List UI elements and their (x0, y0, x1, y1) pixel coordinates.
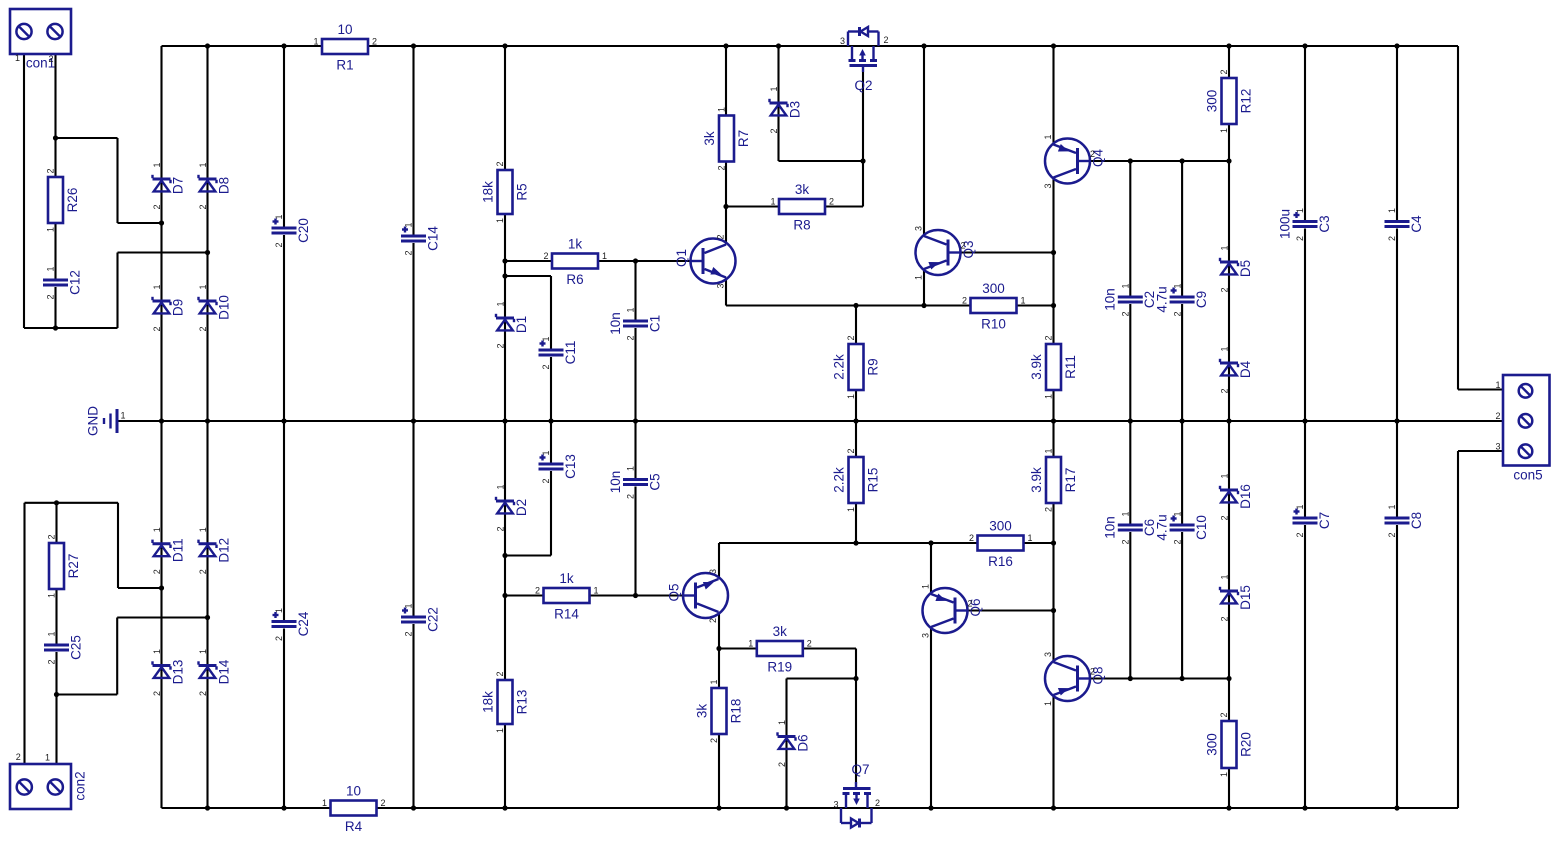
wire D3 to gate (779, 160, 864, 162)
svg-text:2: 2 (274, 242, 284, 247)
junction V- C24 (281, 805, 286, 810)
diode D15 (1220, 574, 1253, 621)
diode D16 (1220, 473, 1253, 520)
svg-text:D6: D6 (795, 734, 810, 751)
svg-text:10n: 10n (608, 312, 623, 335)
svg-text:1: 1 (45, 753, 50, 763)
svg-text:C22: C22 (425, 607, 440, 632)
junction GND C2 (1128, 418, 1133, 423)
diode D5 (1220, 245, 1253, 292)
svg-text:3.9k: 3.9k (1029, 354, 1044, 380)
junction con1 R26 (53, 135, 58, 140)
mosfet Q2 (840, 27, 889, 93)
svg-text:Q5: Q5 (666, 583, 681, 601)
junction GND C14 (411, 418, 416, 423)
svg-text:2: 2 (152, 204, 162, 209)
svg-text:D4: D4 (1238, 360, 1253, 378)
wire con5 pin1 lead (1458, 388, 1503, 390)
svg-text:1: 1 (748, 639, 753, 649)
svg-text:2: 2 (543, 251, 548, 261)
svg-text:C8: C8 (1409, 512, 1424, 529)
svg-text:2: 2 (1044, 335, 1054, 340)
svg-text:1k: 1k (559, 571, 574, 586)
resistor R17 (1029, 448, 1078, 512)
svg-text:2: 2 (404, 631, 414, 636)
svg-text:2: 2 (46, 294, 56, 299)
wire to D8 branch h (118, 251, 208, 253)
junction base C9 (1180, 158, 1185, 163)
svg-text:GND: GND (85, 406, 100, 436)
wire con1 pin1 down (23, 54, 25, 328)
svg-text:10: 10 (346, 784, 361, 799)
capacitor C20 (272, 214, 311, 247)
junction V+ C3 (1302, 43, 1307, 48)
svg-text:1: 1 (274, 608, 284, 613)
junction V- C22 (411, 805, 416, 810)
wire V+ rail (368, 45, 1458, 47)
svg-text:2: 2 (1090, 667, 1095, 677)
svg-text:R19: R19 (767, 660, 792, 675)
junction GND C3 (1302, 418, 1307, 423)
junction V- R13 (502, 805, 507, 810)
svg-text:1: 1 (274, 214, 284, 219)
junction base C10 (1180, 676, 1185, 681)
junction V+ C20 (281, 43, 286, 48)
wire Q6 base to node (967, 609, 1054, 611)
resistor R8 (770, 182, 834, 233)
resistor R18 (694, 679, 743, 743)
wire Q8 base line (1090, 677, 1229, 679)
diode D14 (198, 649, 231, 696)
svg-text:2: 2 (807, 639, 812, 649)
junction V- D14 (205, 805, 210, 810)
svg-text:1: 1 (152, 162, 162, 167)
resistor R11 (1029, 335, 1078, 399)
svg-text:4.7u: 4.7u (1154, 286, 1169, 312)
svg-text:R7: R7 (736, 130, 751, 147)
svg-text:1: 1 (495, 728, 505, 733)
wire R27 to C25 (55, 588, 57, 644)
wire R7 to R8 (726, 205, 779, 207)
wire R15 top (855, 421, 857, 457)
capacitor C6 (1103, 511, 1158, 544)
wire R19 pin2 lead (803, 647, 857, 649)
svg-text:R20: R20 (1238, 732, 1253, 757)
wire C8 column bottom (1396, 525, 1398, 808)
svg-text:2: 2 (198, 326, 208, 331)
svg-text:1: 1 (1387, 504, 1397, 509)
svg-text:3.9k: 3.9k (1029, 467, 1044, 493)
wire C5 column top (634, 421, 636, 478)
junction V- C8 (1394, 805, 1399, 810)
svg-text:2: 2 (198, 569, 208, 574)
svg-text:3: 3 (914, 226, 924, 231)
capacitor C3 (1277, 208, 1332, 241)
wire node to D7 branch h2 (118, 222, 162, 224)
svg-text:C13: C13 (563, 454, 578, 479)
junction D2 C13 (502, 553, 507, 558)
capacitor C11 (539, 336, 578, 369)
wire R20 top (1228, 679, 1230, 722)
junction emitter Q3 (921, 303, 926, 308)
svg-text:1: 1 (495, 218, 505, 223)
wire R5 top (504, 46, 506, 170)
capacitor C22 (401, 603, 440, 636)
svg-text:2: 2 (46, 168, 56, 173)
wire R19 to gate node (855, 649, 857, 679)
junction GND C1 (633, 418, 638, 423)
mosfet Q7 (833, 762, 880, 828)
svg-text:2: 2 (495, 161, 505, 166)
wire to D11 branch v (117, 503, 119, 588)
svg-text:2: 2 (717, 165, 727, 170)
junction base R12 (1226, 158, 1231, 163)
svg-text:2: 2 (152, 326, 162, 331)
svg-text:2: 2 (198, 204, 208, 209)
junction emitter R15 (853, 540, 858, 545)
junction D8 D10 node (205, 250, 210, 255)
diode D10 (198, 284, 231, 331)
junction V- R18 (716, 805, 721, 810)
svg-text:2: 2 (1121, 311, 1131, 316)
wire Q6 collector down (930, 628, 932, 809)
svg-text:1: 1 (198, 284, 208, 289)
junction Q6 base node (1051, 608, 1056, 613)
svg-text:2: 2 (47, 534, 57, 539)
svg-text:Q7: Q7 (851, 762, 869, 777)
svg-text:R6: R6 (566, 272, 583, 287)
svg-text:C11: C11 (563, 341, 578, 365)
junction GND R11 (1051, 418, 1056, 423)
transistor Q5 (666, 569, 728, 623)
svg-text:3k: 3k (795, 182, 810, 197)
svg-text:1: 1 (914, 275, 924, 280)
wire C7 column bottom (1304, 525, 1306, 808)
wire C25 to con2 (55, 652, 57, 764)
junction GND C4 (1394, 418, 1399, 423)
capacitor C13 (539, 450, 578, 483)
wire R9 top (855, 306, 857, 345)
svg-text:2: 2 (626, 335, 636, 340)
svg-text:D2: D2 (514, 499, 529, 516)
svg-text:1: 1 (1027, 533, 1032, 543)
resistor R6 (543, 237, 607, 288)
wire R12 top (1228, 46, 1230, 78)
diode D13 (152, 649, 185, 696)
wire C6 column top (1129, 421, 1131, 524)
capacitor C2 (1103, 283, 1158, 316)
junction D1 C11 (502, 273, 507, 278)
wire Q5 collector down (718, 613, 720, 689)
svg-text:C1: C1 (647, 315, 662, 332)
svg-text:1: 1 (846, 394, 856, 399)
svg-text:R27: R27 (66, 554, 81, 579)
svg-text:2: 2 (47, 659, 57, 664)
wire C2 column top (1129, 161, 1131, 296)
svg-text:3: 3 (1495, 442, 1500, 452)
svg-text:300: 300 (982, 281, 1005, 296)
resistor R13 (480, 671, 529, 733)
wire C10 column top (1181, 421, 1183, 524)
wire GND rail (117, 420, 1503, 422)
svg-text:1: 1 (1121, 511, 1131, 516)
svg-text:2: 2 (777, 762, 787, 767)
svg-text:2: 2 (541, 364, 551, 369)
svg-text:2: 2 (846, 335, 856, 340)
resistor R1 (313, 22, 377, 73)
wire D2 column (504, 421, 506, 680)
wire Q2 gate column (862, 72, 864, 207)
svg-text:2: 2 (48, 54, 53, 64)
svg-text:1: 1 (846, 507, 856, 512)
svg-text:C4: C4 (1409, 215, 1424, 233)
wire R6 pin1 to Q1 base (598, 260, 691, 262)
svg-text:2: 2 (496, 526, 506, 531)
wire Q7 gate column (855, 679, 857, 785)
capacitor C1 (608, 307, 663, 340)
wire V+ to con5 (1457, 46, 1459, 390)
wire C5 column bottom (634, 487, 636, 596)
svg-text:D3: D3 (787, 101, 802, 118)
svg-text:1: 1 (198, 649, 208, 654)
svg-text:1: 1 (47, 631, 57, 636)
junction V- C7 (1302, 805, 1307, 810)
svg-text:2: 2 (496, 343, 506, 348)
wire C1 column bottom (634, 328, 636, 421)
svg-text:2: 2 (404, 250, 414, 255)
wire R15 bottom (855, 503, 857, 543)
diode D1 (496, 301, 529, 348)
svg-text:Q2: Q2 (854, 78, 872, 93)
wire R6 pin2 lead (505, 260, 552, 262)
wire Q4 base line (1090, 160, 1229, 162)
wire Q3 collector up (923, 46, 925, 236)
svg-text:R15: R15 (865, 468, 880, 493)
junction V- R20 (1226, 805, 1231, 810)
svg-text:2: 2 (846, 448, 856, 453)
wire C7 column top (1304, 421, 1306, 517)
wire C4 column top (1396, 46, 1398, 220)
svg-text:1: 1 (921, 584, 931, 589)
wire D8 D10 column (206, 46, 208, 421)
wire con2 pin2 up (23, 503, 25, 764)
connector con1 (10, 9, 71, 71)
wire C20 column bottom (283, 235, 285, 421)
svg-text:1: 1 (1295, 208, 1305, 213)
resistor R5 (480, 161, 529, 223)
svg-text:R18: R18 (728, 699, 743, 724)
svg-text:D14: D14 (216, 659, 231, 684)
svg-text:1: 1 (198, 527, 208, 532)
wire V- rail (378, 807, 1459, 809)
svg-text:2: 2 (960, 241, 965, 251)
diode D6 (777, 720, 810, 767)
resistor R20 (1204, 712, 1253, 777)
svg-text:D8: D8 (216, 177, 231, 194)
capacitor C12 (43, 266, 82, 299)
wire Q6 emitter up (930, 543, 932, 594)
svg-text:R17: R17 (1063, 468, 1078, 493)
svg-text:300: 300 (989, 519, 1012, 534)
svg-text:C10: C10 (1194, 515, 1209, 540)
wire to D12 branch h (117, 616, 207, 618)
svg-text:2: 2 (198, 691, 208, 696)
svg-text:R12: R12 (1238, 89, 1253, 114)
diode D8 (198, 162, 231, 209)
wire C11 column top (550, 276, 552, 349)
junction V+ Q4 (1051, 43, 1056, 48)
wire C12 down (54, 287, 56, 328)
junction R16 R17 (1051, 540, 1056, 545)
junction V+ D8 (205, 43, 210, 48)
wire to D11 branch h (118, 587, 162, 589)
svg-text:1: 1 (152, 649, 162, 654)
diode D2 (496, 484, 529, 531)
wire C24 column bottom (283, 629, 285, 809)
wire D13 column (160, 421, 162, 808)
wire R20 bottom (1228, 768, 1230, 808)
resistor R12 (1204, 69, 1253, 133)
ground GND (85, 406, 125, 436)
svg-text:1: 1 (1043, 701, 1053, 706)
connector con2 (10, 752, 87, 809)
svg-text:1: 1 (1219, 772, 1229, 777)
wire node to D7 branch h (56, 137, 118, 139)
svg-text:2: 2 (16, 752, 21, 762)
svg-text:2: 2 (495, 671, 505, 676)
wire C1 column top (634, 261, 636, 320)
resistor R9 (831, 335, 880, 399)
junction GND C11 (548, 418, 553, 423)
capacitor C8 (1385, 504, 1424, 537)
svg-text:2: 2 (1220, 287, 1230, 292)
svg-text:1: 1 (1220, 473, 1230, 478)
junction GND C9 (1180, 418, 1185, 423)
junction D11 D13 node (159, 585, 164, 590)
svg-text:C5: C5 (647, 473, 662, 490)
svg-text:2: 2 (716, 234, 726, 239)
wire emitter line bottom (719, 542, 978, 544)
wire R12 D5 D4 column (1228, 123, 1230, 422)
svg-text:2: 2 (708, 618, 718, 623)
svg-text:R13: R13 (514, 690, 529, 715)
wire D6 column (785, 679, 787, 809)
svg-text:3: 3 (921, 633, 931, 638)
svg-text:Q1: Q1 (674, 249, 689, 267)
resistor R4 (322, 784, 386, 835)
wire Q4 emitter to R11 (1052, 178, 1054, 344)
junction V+ C14 (411, 43, 416, 48)
wire R19 pin1 lead (719, 647, 757, 649)
svg-text:2: 2 (1295, 236, 1305, 241)
svg-text:2: 2 (372, 37, 377, 47)
svg-text:2.2k: 2.2k (831, 467, 846, 493)
wire R14 pin2 lead (505, 594, 543, 596)
svg-text:2: 2 (1220, 616, 1230, 621)
wire emitter line to R10 (726, 304, 970, 306)
svg-text:2: 2 (152, 569, 162, 574)
capacitor C24 (272, 608, 311, 641)
wire C20 column top (283, 46, 285, 227)
svg-text:D7: D7 (170, 177, 185, 194)
diode D12 (198, 527, 231, 574)
svg-text:2: 2 (1220, 388, 1230, 393)
junction R10 R11 (1051, 303, 1056, 308)
svg-text:R1: R1 (336, 58, 353, 73)
svg-text:3: 3 (1043, 652, 1053, 657)
junction V- D6 (784, 805, 789, 810)
svg-text:1: 1 (152, 284, 162, 289)
junction emitter Q6 (928, 540, 933, 545)
svg-text:3: 3 (833, 800, 838, 810)
junction GND D7 (159, 418, 164, 423)
svg-text:1: 1 (1220, 346, 1230, 351)
resistor R10 (962, 281, 1026, 332)
wire R9 bottom (855, 390, 857, 421)
svg-text:1: 1 (15, 53, 20, 63)
svg-text:1: 1 (322, 798, 327, 808)
resistor R7 (702, 107, 751, 171)
junction GND D4 (1226, 418, 1231, 423)
svg-text:3k: 3k (773, 624, 788, 639)
svg-text:2: 2 (962, 296, 967, 306)
svg-text:3: 3 (716, 283, 726, 288)
capacitor C14 (401, 222, 440, 255)
svg-text:4.7u: 4.7u (1154, 514, 1169, 540)
svg-text:R8: R8 (793, 218, 810, 233)
wire R14 pin1 to Q5 base (590, 594, 683, 596)
junction GND C20 (281, 418, 286, 423)
svg-text:2: 2 (1219, 69, 1229, 74)
svg-text:1: 1 (541, 450, 551, 455)
svg-text:D5: D5 (1238, 260, 1253, 277)
svg-text:con2: con2 (72, 771, 87, 800)
svg-text:R9: R9 (865, 358, 880, 375)
svg-text:100u: 100u (1277, 209, 1292, 239)
junction C25 node (54, 692, 59, 697)
svg-text:C9: C9 (1194, 291, 1209, 308)
svg-text:1: 1 (1219, 128, 1229, 133)
capacitor C4 (1385, 208, 1424, 241)
wire C14 column top (412, 46, 414, 235)
diode D9 (152, 284, 185, 331)
svg-text:D10: D10 (216, 295, 231, 320)
svg-text:10n: 10n (1103, 288, 1118, 311)
junction GND R9 (853, 418, 858, 423)
wire R17 to Q8 (1052, 503, 1054, 662)
svg-text:3k: 3k (694, 704, 709, 719)
svg-text:1: 1 (777, 720, 787, 725)
resistor R15 (831, 448, 880, 512)
svg-text:D16: D16 (1238, 484, 1253, 509)
svg-text:1: 1 (709, 679, 719, 684)
svg-text:R26: R26 (65, 188, 80, 213)
wire V- rail left (162, 807, 331, 809)
junction V- Q6 (928, 805, 933, 810)
svg-text:C20: C20 (296, 218, 311, 243)
junction V+ Q3 (921, 43, 926, 48)
resistor R27 (47, 534, 81, 598)
svg-text:R10: R10 (981, 317, 1006, 332)
diode D4 (1220, 346, 1253, 393)
svg-text:2: 2 (1295, 532, 1305, 537)
svg-text:2: 2 (380, 798, 385, 808)
wire Q3 emitter down (923, 269, 925, 306)
svg-text:3: 3 (1043, 183, 1053, 188)
junction con2 R27 (54, 500, 59, 505)
svg-text:18k: 18k (480, 691, 495, 713)
svg-text:18k: 18k (480, 181, 495, 203)
